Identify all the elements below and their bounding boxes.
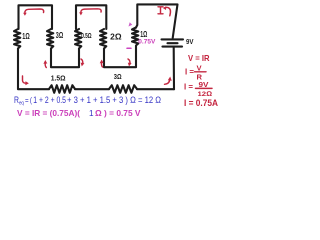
svg-text:I = 0.75A: I = 0.75A	[184, 98, 219, 108]
resistor R5 (1 ohm, fifth vertical, with 0.75V drop)	[132, 28, 138, 50]
current label I (red, top right)	[158, 7, 163, 14]
current direction arrow near I	[165, 7, 171, 15]
svg-text:1Ω: 1Ω	[22, 31, 30, 41]
wire: U-bridge between R2 and R3 bottoms	[51, 49, 79, 68]
current arrow down from R3	[81, 59, 83, 64]
resistor R4 (2 ohm, fourth vertical)	[100, 29, 106, 49]
svg-text:0.5Ω: 0.5Ω	[81, 31, 92, 40]
current arrow up into R2	[45, 63, 46, 68]
svg-text:1: 1	[89, 109, 94, 118]
resistor R3 (0.5 ohm, third vertical)	[75, 29, 81, 49]
polarity minus mark (magenta) at R5 bottom	[127, 47, 131, 49]
current arrow on bridge 1	[25, 9, 44, 13]
battery B1 middle plate (short)	[168, 42, 178, 44]
resistor R2 (3 ohm, second vertical)	[47, 29, 53, 49]
resistor R6 (1.5 ohm, horizontal)	[49, 85, 75, 93]
wire: top bridge 2 (R3 top to R4 top)	[76, 5, 106, 29]
svg-text:V = IR = (0.75A)(: V = IR = (0.75A)(	[17, 109, 80, 118]
svg-text:V = IR: V = IR	[188, 54, 210, 63]
wire: bottom rail middle segment	[75, 88, 109, 90]
wire: U-bridge between R4 and R5 bottoms	[104, 49, 136, 68]
svg-text:Ω ) = 0.75 V: Ω ) = 0.75 V	[95, 109, 141, 118]
svg-text:12Ω: 12Ω	[198, 91, 213, 98]
current arrow on bridge 2	[81, 9, 101, 13]
wire: battery bottom down to bottom rail	[173, 47, 175, 90]
wire: R1 bottom and bottom rail left segment	[18, 49, 49, 90]
current arrow bottom-right corner (up into battery)	[165, 80, 170, 85]
svg-text:I =: I =	[184, 83, 193, 92]
svg-text:0.75V: 0.75V	[138, 38, 156, 45]
svg-text:9V: 9V	[199, 80, 210, 89]
wire: top bridge 3 (R5 top to battery top)	[136, 4, 178, 38]
svg-text:3Ω: 3Ω	[56, 30, 64, 40]
resistor R7 (3 ohm, horizontal)	[109, 85, 137, 93]
svg-text:+ 3 + 1 + 1.5 + 3 ) Ω = 12 Ω: + 3 + 1 + 1.5 + 3 ) Ω = 12 Ω	[67, 95, 161, 105]
current arrow bottom-left corner	[23, 76, 26, 83]
current arrow up into R4	[101, 62, 102, 67]
wire: top bridge 1 (R1 top to R2 top)	[19, 5, 53, 29]
wire: bottom rail right segment	[137, 88, 174, 90]
svg-text:2Ω: 2Ω	[110, 32, 122, 41]
svg-text:3Ω: 3Ω	[114, 72, 122, 81]
current arrow down from R5	[128, 59, 130, 64]
battery B1 top plate (long)	[162, 38, 184, 40]
svg-text:1.5Ω: 1.5Ω	[51, 76, 66, 83]
svg-text:I =: I =	[185, 68, 194, 77]
polarity plus mark (magenta) at R5 top	[129, 22, 133, 26]
battery B1 bottom plate (long)	[163, 46, 183, 48]
resistor R1 (1 ohm, left vertical)	[14, 29, 20, 49]
svg-text:9V: 9V	[186, 37, 194, 46]
